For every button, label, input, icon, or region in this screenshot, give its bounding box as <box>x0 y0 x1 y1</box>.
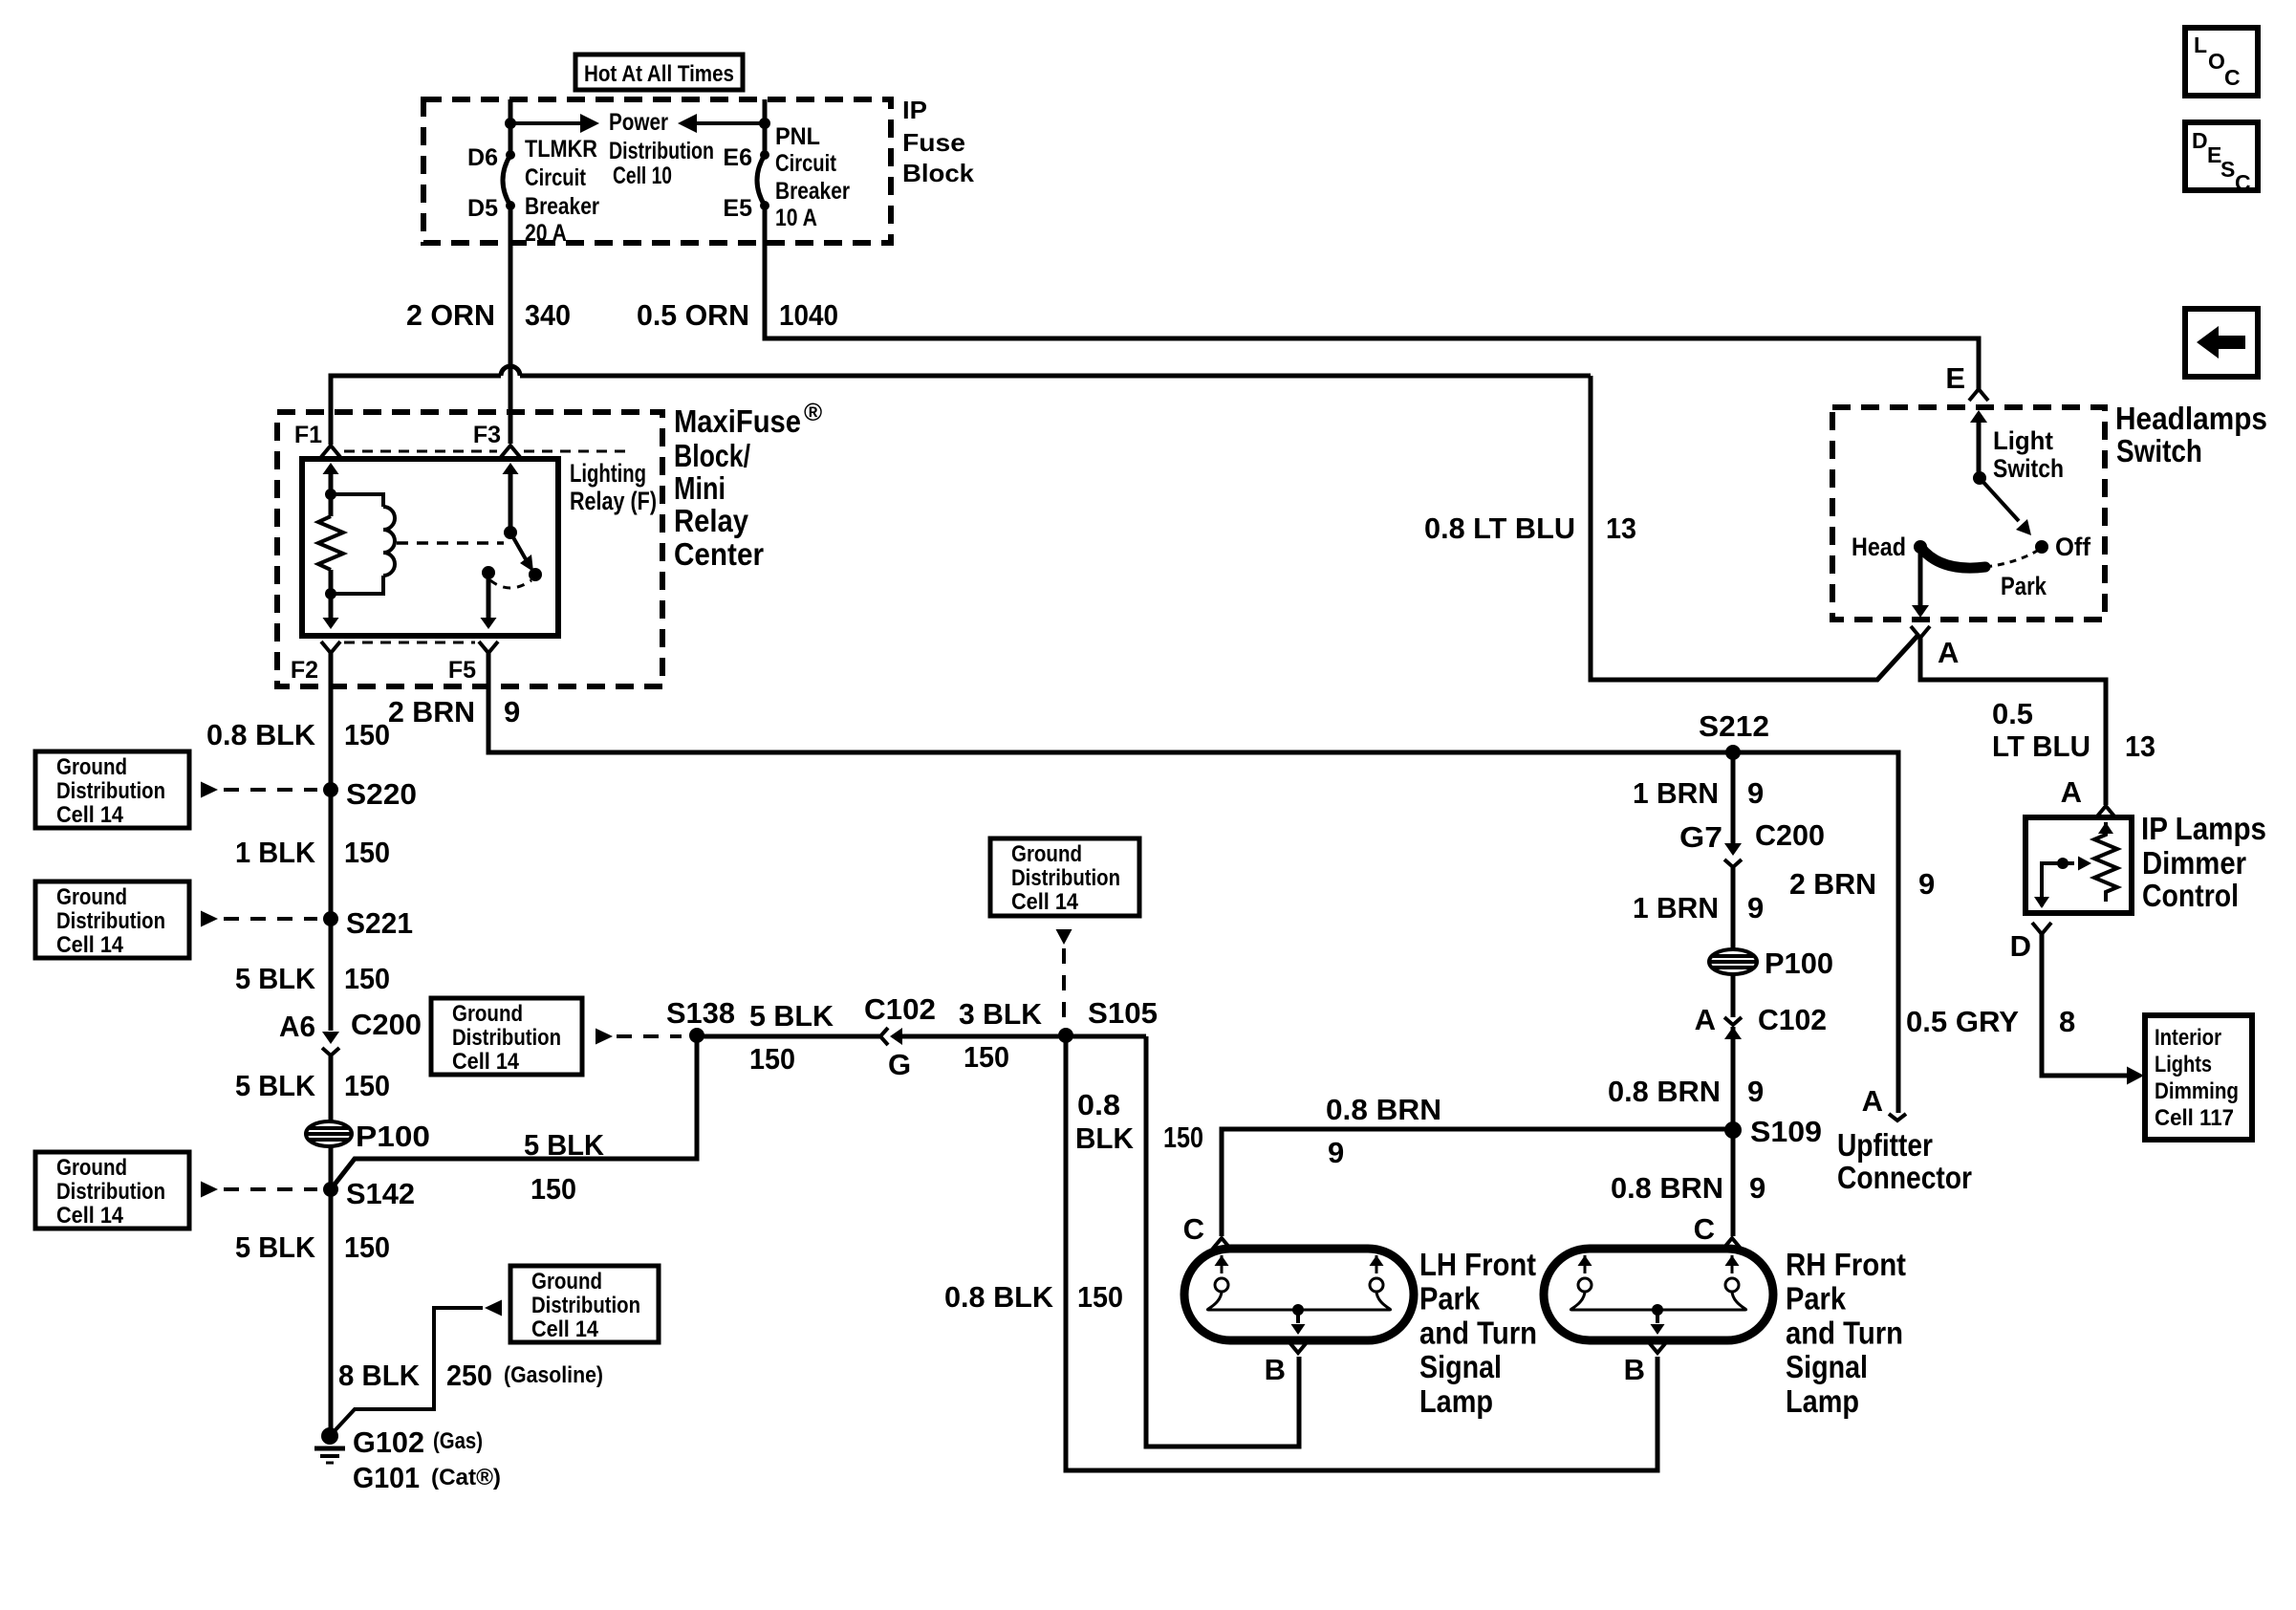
relay alternate-throw dashed arc <box>490 580 531 588</box>
node: light switch pivot dot <box>1973 471 1986 485</box>
svg-text:B: B <box>1265 1353 1286 1386</box>
svg-text:Cell 14: Cell 14 <box>452 1049 520 1075</box>
svg-text:Distribution: Distribution <box>531 1293 640 1318</box>
svg-text:9: 9 <box>1918 867 1935 901</box>
svg-text:(Cat®): (Cat®) <box>431 1465 501 1490</box>
svg-text:3 BLK: 3 BLK <box>959 997 1043 1031</box>
wire: 5 BLK 150 (S138 to C102 G) <box>697 1034 880 1039</box>
svg-text:1040: 1040 <box>779 298 838 332</box>
svg-text:150: 150 <box>531 1172 576 1206</box>
svg-text:10 A: 10 A <box>775 205 817 231</box>
junction dot on TLMKR feed <box>505 118 516 129</box>
svg-text:Breaker: Breaker <box>775 178 850 205</box>
relay coil L1 <box>331 494 395 594</box>
svg-text:C200: C200 <box>1755 818 1825 852</box>
svg-text:A: A <box>2061 775 2082 809</box>
wire: 1 BRN 9 (S212 down to C200 G7) <box>1731 752 1736 852</box>
wire: G102 to Ground Distribution callout <box>330 1308 483 1436</box>
svg-text:Lamp: Lamp <box>1786 1383 1859 1419</box>
svg-text:20 A: 20 A <box>525 220 567 247</box>
svg-text:Cell 14: Cell 14 <box>56 1203 124 1229</box>
pin F5 connector chevron <box>479 642 498 653</box>
wire: 0.5 ORN circuit 1040 (PNL E5 to Headlamps Switch E) <box>765 206 1979 389</box>
svg-text:Ground: Ground <box>452 1001 523 1027</box>
label Lighting Relay (F) <box>570 459 657 515</box>
wire: feed into PNL breaker (pin E6) <box>763 99 768 155</box>
label IP Fuse Block <box>902 96 975 187</box>
Interior Lights Dimming Cell 117 callout box <box>2145 1015 2252 1140</box>
splice S212 dot <box>1725 745 1741 760</box>
svg-text:Cell 14: Cell 14 <box>56 932 124 958</box>
svg-text:150: 150 <box>344 1069 390 1102</box>
label Power Distribution Cell 10 <box>609 109 714 189</box>
relay switch common stem from F3 with arrow up <box>503 463 519 533</box>
svg-text:S105: S105 <box>1088 996 1158 1030</box>
svg-text:F1: F1 <box>294 422 322 448</box>
wire: 2 ORN circuit 340 (TLMKR D5 down to MaxiFuse F3) <box>509 206 513 444</box>
circuit breaker CB2 PNL 10 A <box>757 150 769 210</box>
label IP Lamps Dimmer Control <box>2141 811 2266 913</box>
relay actuation dashed link <box>397 541 504 545</box>
lamp pin C chevron <box>1212 1238 1231 1250</box>
svg-text:150: 150 <box>749 1042 795 1076</box>
ground distribution callout box (to S142) <box>35 1152 317 1229</box>
wire label 5 BLK 150 (below S142) <box>235 1230 390 1264</box>
wire label 5 BLK 150 (S138-C102) <box>749 999 834 1076</box>
svg-text:Headlamps: Headlamps <box>2115 401 2267 436</box>
svg-text:150: 150 <box>964 1040 1009 1074</box>
wiper thick arc Head-Park <box>1920 547 1985 568</box>
back-arrow reference box <box>2185 309 2258 377</box>
wire: 5 BLK below C200 <box>329 1055 334 1121</box>
svg-text:(Gasoline): (Gasoline) <box>504 1362 603 1388</box>
power source label box: Hot At All Times <box>575 54 743 90</box>
svg-text:S212: S212 <box>1699 709 1769 743</box>
svg-text:0.8 BLK: 0.8 BLK <box>206 718 316 751</box>
svg-text:G: G <box>888 1048 911 1081</box>
svg-text:F2: F2 <box>291 657 318 684</box>
svg-text:Distribution: Distribution <box>56 778 165 804</box>
svg-text:Lighting: Lighting <box>570 459 646 488</box>
label RH Front Park and Turn Signal Lamp <box>1786 1247 1906 1419</box>
label TLMKR Circuit Breaker 20 A <box>525 136 599 247</box>
dashed arc to Off <box>1985 550 2039 567</box>
svg-text:C102: C102 <box>1758 1003 1827 1036</box>
svg-text:Ground: Ground <box>1011 841 1082 867</box>
wire label 2 BRN 9 (at Upfitter drop) <box>1789 867 1935 901</box>
pin A connector chevron (dimmer) <box>2096 806 2115 817</box>
svg-text:S220: S220 <box>346 777 417 811</box>
wire label 1 BRN 9 (above C200) <box>1633 776 1764 810</box>
svg-text:Control: Control <box>2142 878 2239 913</box>
svg-text:C: C <box>1183 1212 1204 1246</box>
wire label 0.8 BRN 9 (long run) <box>1326 1093 1441 1169</box>
arrow to Power Distribution (from TLMKR feed) <box>510 114 599 133</box>
svg-text:150: 150 <box>344 962 390 995</box>
svg-text:Dimming: Dimming <box>2155 1078 2239 1104</box>
svg-text:8 BLK: 8 BLK <box>338 1359 421 1392</box>
svg-text:9: 9 <box>1749 1171 1765 1205</box>
label Headlamps Switch <box>2115 401 2267 468</box>
svg-text:0.5 ORN: 0.5 ORN <box>637 298 749 332</box>
relay output stem with arrow down (F5 side) <box>481 573 497 629</box>
arrow to Power Distribution (from PNL feed) <box>678 114 765 133</box>
svg-text:150: 150 <box>344 718 390 751</box>
svg-text:1 BRN: 1 BRN <box>1633 776 1719 810</box>
wire label 1 BLK 150 <box>235 836 390 869</box>
splice S221 dot <box>323 911 338 926</box>
svg-text:IP: IP <box>902 96 927 124</box>
svg-text:340: 340 <box>525 298 571 332</box>
ground distribution callout box (from G102) <box>485 1266 659 1342</box>
relay coil bottom lead + terminal arrow down (F2 side) <box>323 570 339 629</box>
connector: Upfitter Connector pin A chevron <box>1889 1114 1906 1120</box>
pin A connector chevron (Headlamps Switch) <box>1911 626 1930 638</box>
svg-text:0.8 BRN: 0.8 BRN <box>1611 1171 1723 1205</box>
svg-text:Circuit: Circuit <box>525 164 587 191</box>
svg-text:and Turn: and Turn <box>1419 1315 1537 1350</box>
wire label 8 BLK 250 (Gasoline) <box>338 1359 603 1392</box>
svg-text:BLK: BLK <box>1075 1121 1135 1155</box>
svg-text:9: 9 <box>1747 776 1764 810</box>
svg-text:F3: F3 <box>473 422 501 448</box>
svg-text:E5: E5 <box>723 195 752 222</box>
wire: 3 BLK 150 (C102 to S105) <box>902 1034 1146 1039</box>
connector A / C102 in-line (chevron + arrow up) <box>1724 1017 1742 1039</box>
Headlamps Switch (dashed outline) <box>1832 407 2105 620</box>
svg-text:P100: P100 <box>356 1120 430 1153</box>
IP Fuse Block (dashed outline) <box>423 99 891 243</box>
svg-text:Distribution: Distribution <box>609 138 714 164</box>
svg-text:D5: D5 <box>467 195 498 222</box>
lamp dual filaments (internal) <box>1207 1255 1390 1335</box>
wire label 0.5 ORN 1040 <box>637 298 838 332</box>
svg-text:P100: P100 <box>1765 946 1833 980</box>
svg-text:PNL: PNL <box>775 123 820 150</box>
svg-text:Circuit: Circuit <box>775 150 837 177</box>
svg-text:Block/: Block/ <box>674 438 750 473</box>
wire: 0.8 BRN below P100 to C102 A <box>1731 975 1736 1017</box>
svg-text:5 BLK: 5 BLK <box>235 1230 316 1264</box>
svg-text:O: O <box>2208 49 2225 74</box>
ground label G102 (Gas) <box>353 1425 483 1459</box>
svg-text:E: E <box>1945 361 1965 395</box>
svg-text:Lamp: Lamp <box>1419 1383 1493 1419</box>
svg-text:LT BLU: LT BLU <box>1992 729 2090 763</box>
svg-text:150: 150 <box>1077 1280 1123 1314</box>
wire: 0.8 BLK 150 (LH lamp B return) <box>1146 1036 1299 1447</box>
svg-text:C: C <box>2224 65 2241 90</box>
svg-text:150: 150 <box>344 1230 390 1264</box>
dimmer wiper arm with dot and arrow <box>2034 857 2091 909</box>
wire: 0.8 BRN 9 (S109 left to LH lamp C) <box>1222 1129 1733 1236</box>
node: coil top junction dot <box>325 489 336 500</box>
svg-text:150: 150 <box>1163 1120 1203 1154</box>
svg-text:F5: F5 <box>448 657 476 684</box>
pin F2 connector chevron <box>321 642 340 653</box>
DESC reference box <box>2185 122 2258 195</box>
wire label 2 BRN 9 (at F5) <box>388 695 520 729</box>
svg-text:A: A <box>1862 1084 1883 1118</box>
junction dot on PNL feed <box>759 118 770 129</box>
splice S105 dot <box>1058 1028 1073 1043</box>
svg-text:0.8: 0.8 <box>1077 1088 1120 1121</box>
connector row dashed line F2-F5 <box>344 642 475 644</box>
svg-text:Signal: Signal <box>1419 1349 1502 1384</box>
svg-text:RH Front: RH Front <box>1786 1247 1906 1282</box>
svg-text:5 BLK: 5 BLK <box>749 999 834 1033</box>
svg-text:and Turn: and Turn <box>1786 1315 1903 1350</box>
svg-text:Relay: Relay <box>674 503 749 538</box>
wire label 0.8 BLK 150 (LH return) <box>1075 1088 1203 1155</box>
svg-text:®: ® <box>804 398 822 426</box>
wire: 0.8 LT BLU circuit 13 (rail down to Headlamps Switch A) <box>1591 376 1918 680</box>
connector G7 / C200 in-line (arrow down + chevron) <box>1724 843 1742 867</box>
ground G102 dot <box>321 1427 338 1445</box>
wire: BLK ground chain (F2 down to G102) <box>329 653 334 1031</box>
svg-text:Fuse: Fuse <box>902 128 965 157</box>
svg-text:S142: S142 <box>346 1177 415 1210</box>
svg-text:MaxiFuse: MaxiFuse <box>674 403 801 439</box>
svg-text:13: 13 <box>2125 729 2155 763</box>
pin F3 connector chevron <box>501 446 520 457</box>
MaxiFuse Block / Mini Relay Center (dashed outline) <box>277 412 662 686</box>
wire label 0.8 BLK 150 <box>206 718 390 751</box>
svg-text:Power: Power <box>609 109 668 136</box>
LOC reference box <box>2185 28 2258 96</box>
node: Head contact dot <box>1914 540 1927 554</box>
svg-text:9: 9 <box>1328 1136 1344 1169</box>
svg-text:0.5: 0.5 <box>1992 697 2033 730</box>
svg-text:Cell 117: Cell 117 <box>2155 1105 2234 1131</box>
svg-text:S221: S221 <box>346 906 413 940</box>
splice S138 dot <box>689 1028 704 1043</box>
svg-text:Mini: Mini <box>674 470 726 506</box>
lamp dual filaments (internal) <box>1570 1255 1745 1335</box>
svg-text:9: 9 <box>504 695 520 729</box>
lamp pin B chevron <box>1289 1341 1308 1353</box>
svg-text:L: L <box>2194 33 2207 57</box>
wire: 0.5 GRY circuit 8 (dimmer D to Interior Lights Dimming) <box>2042 934 2144 1085</box>
ground distribution callout box (to S221) <box>35 881 317 958</box>
svg-text:C: C <box>1694 1212 1715 1246</box>
connector row dashed line F1-F3 <box>344 450 497 453</box>
svg-text:Upfitter: Upfitter <box>1837 1127 1933 1163</box>
wire: 0.5 LT BLU circuit 13 (Headlamps Switch A to IP dimmer A) <box>1920 638 2106 805</box>
svg-text:150: 150 <box>344 836 390 869</box>
svg-text:13: 13 <box>1606 511 1636 545</box>
wire: 2 BRN circuit 9 (F5 down, right to S212 and Upfitter A) <box>488 653 1898 1113</box>
pin D connector chevron (dimmer) <box>2032 923 2051 934</box>
lamp pin B chevron <box>1648 1341 1667 1353</box>
svg-text:Distribution: Distribution <box>452 1025 561 1051</box>
svg-text:D: D <box>2192 128 2208 153</box>
wire label 0.5 LT BLU 13 <box>1992 697 2155 763</box>
dimmer rheostat resistor <box>2094 822 2117 902</box>
svg-text:Cell 14: Cell 14 <box>531 1316 599 1342</box>
grommet P100 (left column) <box>306 1121 352 1146</box>
node: switch pivot dot <box>504 526 517 539</box>
svg-text:Hot At All Times: Hot At All Times <box>584 61 734 87</box>
svg-text:A: A <box>1695 1003 1716 1036</box>
lamp housing: RH Front Park and Turn Signal Lamp <box>1544 1249 1773 1340</box>
svg-text:0.8 BRN: 0.8 BRN <box>1608 1075 1721 1108</box>
wire: 0.8 BRN 9 (S109 down to RH lamp C) <box>1731 1130 1736 1236</box>
wire: 0.8 BRN 9 (C102 to S109) <box>1731 1027 1736 1130</box>
wire label 0.8 BRN 9 (above S109) <box>1608 1075 1764 1108</box>
svg-text:Relay (F): Relay (F) <box>570 487 657 515</box>
wire label 2 ORN 340 <box>406 298 571 332</box>
svg-text:G7: G7 <box>1679 820 1722 854</box>
circuit breaker CB1 TLMKR 20 A <box>503 150 515 210</box>
svg-text:5 BLK: 5 BLK <box>524 1128 605 1162</box>
wire label 0.8 BLK 150 (RH return) <box>944 1280 1123 1314</box>
svg-text:A: A <box>1938 636 1959 669</box>
wire: MaxiFuse F1 feed rail (with hop over 2 ORN wire) <box>331 366 1591 445</box>
svg-text:IP Lamps: IP Lamps <box>2141 811 2266 846</box>
wire: 0.8 BLK 150 (S105 down and right to RH lamp B) <box>1066 1035 1657 1470</box>
svg-text:Ground: Ground <box>56 884 127 910</box>
ground label G101 (Cat) <box>353 1461 501 1494</box>
svg-text:Dimmer: Dimmer <box>2142 845 2246 881</box>
svg-text:1 BRN: 1 BRN <box>1633 891 1719 925</box>
svg-text:Breaker: Breaker <box>525 193 599 220</box>
splice S142 dot <box>323 1182 338 1197</box>
svg-text:8: 8 <box>2059 1005 2075 1038</box>
svg-text:Ground: Ground <box>56 1155 127 1181</box>
svg-text:250: 250 <box>446 1359 492 1392</box>
svg-text:9: 9 <box>1747 1075 1764 1108</box>
svg-text:Switch: Switch <box>2116 433 2202 468</box>
svg-text:Light: Light <box>1993 426 2053 455</box>
svg-text:Distribution: Distribution <box>56 1179 165 1205</box>
svg-text:Ground: Ground <box>56 754 127 780</box>
connector C102 pin G in-line (chevron + arrow left) <box>880 1028 902 1045</box>
node: relay output contact dot <box>482 566 495 579</box>
label Upfitter Connector <box>1837 1127 1972 1195</box>
connector A6 / C200 in-line (arrow down + chevron) <box>322 1032 339 1055</box>
svg-text:S138: S138 <box>666 996 735 1030</box>
svg-text:5 BLK: 5 BLK <box>235 962 316 995</box>
wire: feed into TLMKR breaker (pin D6) <box>509 99 513 155</box>
wire: 5 BLK 150 (S142 to S138) <box>331 1035 697 1189</box>
svg-text:Lights: Lights <box>2155 1052 2212 1077</box>
svg-text:0.8 BLK: 0.8 BLK <box>944 1280 1054 1314</box>
svg-text:1 BLK: 1 BLK <box>235 836 316 869</box>
node: relay NO contact dot <box>529 568 542 581</box>
pin F1 connector chevron <box>321 446 340 457</box>
svg-text:Head: Head <box>1852 533 1906 561</box>
svg-text:Off: Off <box>2055 533 2091 561</box>
svg-text:2 BRN: 2 BRN <box>388 695 475 729</box>
svg-text:Cell 14: Cell 14 <box>1011 889 1079 915</box>
label PNL Circuit Breaker 10 A <box>775 123 850 231</box>
svg-text:C: C <box>2235 170 2251 195</box>
wire label 5 BLK 150 (S142-S138 run) <box>524 1128 605 1206</box>
svg-text:Park: Park <box>2001 572 2047 600</box>
lamp pin C chevron <box>1722 1238 1742 1250</box>
svg-text:2 ORN: 2 ORN <box>406 298 495 332</box>
grommet P100 (right column) <box>1709 949 1757 974</box>
wire label 0.8 BRN 9 (below S109) <box>1611 1171 1765 1205</box>
svg-text:Block: Block <box>902 159 975 187</box>
svg-text:C102: C102 <box>864 992 936 1026</box>
svg-text:Center: Center <box>674 536 764 572</box>
svg-text:0.5 GRY: 0.5 GRY <box>1906 1005 2019 1038</box>
svg-text:5 BLK: 5 BLK <box>235 1069 316 1102</box>
svg-text:Distribution: Distribution <box>56 908 165 934</box>
svg-text:B: B <box>1624 1353 1645 1386</box>
IP Lamps Dimmer Control box <box>2025 817 2132 913</box>
label MaxiFuse Block/Mini Relay Center <box>674 398 822 572</box>
label LH Front Park and Turn Signal Lamp <box>1419 1247 1537 1419</box>
ground distribution callout box (to S220) <box>35 751 317 828</box>
svg-text:Distribution: Distribution <box>1011 865 1120 891</box>
ground symbol at G102 <box>314 1448 345 1463</box>
svg-text:9: 9 <box>1747 891 1764 925</box>
svg-text:G101: G101 <box>353 1461 420 1494</box>
wire label 0.5 GRY 8 <box>1906 1005 2075 1038</box>
pin E connector chevron <box>1969 389 1988 401</box>
relay coil branch: terminal arrow up (F1 side) <box>323 463 339 516</box>
ground distribution callout box (to S138) <box>431 998 682 1075</box>
svg-text:D6: D6 <box>467 144 498 171</box>
switch arm with arrow (to Off) <box>1980 478 2031 535</box>
wire label 3 BLK 150 <box>959 997 1043 1074</box>
svg-text:LH Front: LH Front <box>1419 1247 1536 1282</box>
svg-text:Switch: Switch <box>1993 454 2064 483</box>
svg-text:E6: E6 <box>723 144 752 171</box>
wire: 1 BRN 9 (C200 to P100) <box>1731 867 1736 948</box>
relay switch moving arm (arrow to closed contact) <box>510 533 533 572</box>
splice S220 dot <box>323 782 338 797</box>
svg-text:S: S <box>2220 157 2235 182</box>
svg-text:Cell 10: Cell 10 <box>613 163 672 189</box>
label Light Switch <box>1993 426 2064 483</box>
svg-text:0.8 LT BLU: 0.8 LT BLU <box>1424 511 1575 545</box>
svg-text:Park: Park <box>1419 1281 1481 1316</box>
wire label 5 BLK 150 (above C200) <box>235 962 390 995</box>
wire label 1 BRN 9 (below C200) <box>1633 891 1764 925</box>
relay resistor R (parallel with coil) <box>318 516 343 570</box>
svg-text:2 BRN: 2 BRN <box>1789 867 1876 901</box>
switch feed stem with arrow up (pin E) <box>1970 410 1987 478</box>
svg-text:0.8 BRN: 0.8 BRN <box>1326 1093 1441 1126</box>
lamp housing: LH Front Park and Turn Signal Lamp <box>1184 1249 1414 1340</box>
wire label 0.8 LT BLU 13 <box>1424 511 1636 545</box>
svg-text:G102: G102 <box>353 1425 424 1459</box>
node: coil bottom junction dot <box>325 588 336 599</box>
svg-text:Park: Park <box>1786 1281 1847 1316</box>
splice S109 dot <box>1724 1121 1742 1139</box>
svg-text:S109: S109 <box>1750 1115 1822 1148</box>
svg-text:Ground: Ground <box>531 1269 602 1295</box>
svg-text:Cell 14: Cell 14 <box>56 802 124 828</box>
svg-text:Interior: Interior <box>2155 1025 2221 1051</box>
node: Off contact dot <box>2035 540 2048 554</box>
svg-text:Connector: Connector <box>1837 1160 1972 1195</box>
switch output stem with arrow down (pin A) <box>1912 547 1929 618</box>
relay K1 Lighting Relay (F) outline <box>302 459 558 636</box>
wire: 5 BLK below P100 <box>329 1146 334 1436</box>
svg-text:C200: C200 <box>351 1008 422 1041</box>
svg-text:(Gas): (Gas) <box>433 1428 483 1454</box>
svg-text:TLMKR: TLMKR <box>525 136 597 163</box>
svg-text:D: D <box>2010 929 2031 963</box>
svg-text:A6: A6 <box>279 1010 315 1043</box>
svg-text:Signal: Signal <box>1786 1349 1868 1384</box>
ground distribution callout box (to S105) <box>990 838 1139 1027</box>
